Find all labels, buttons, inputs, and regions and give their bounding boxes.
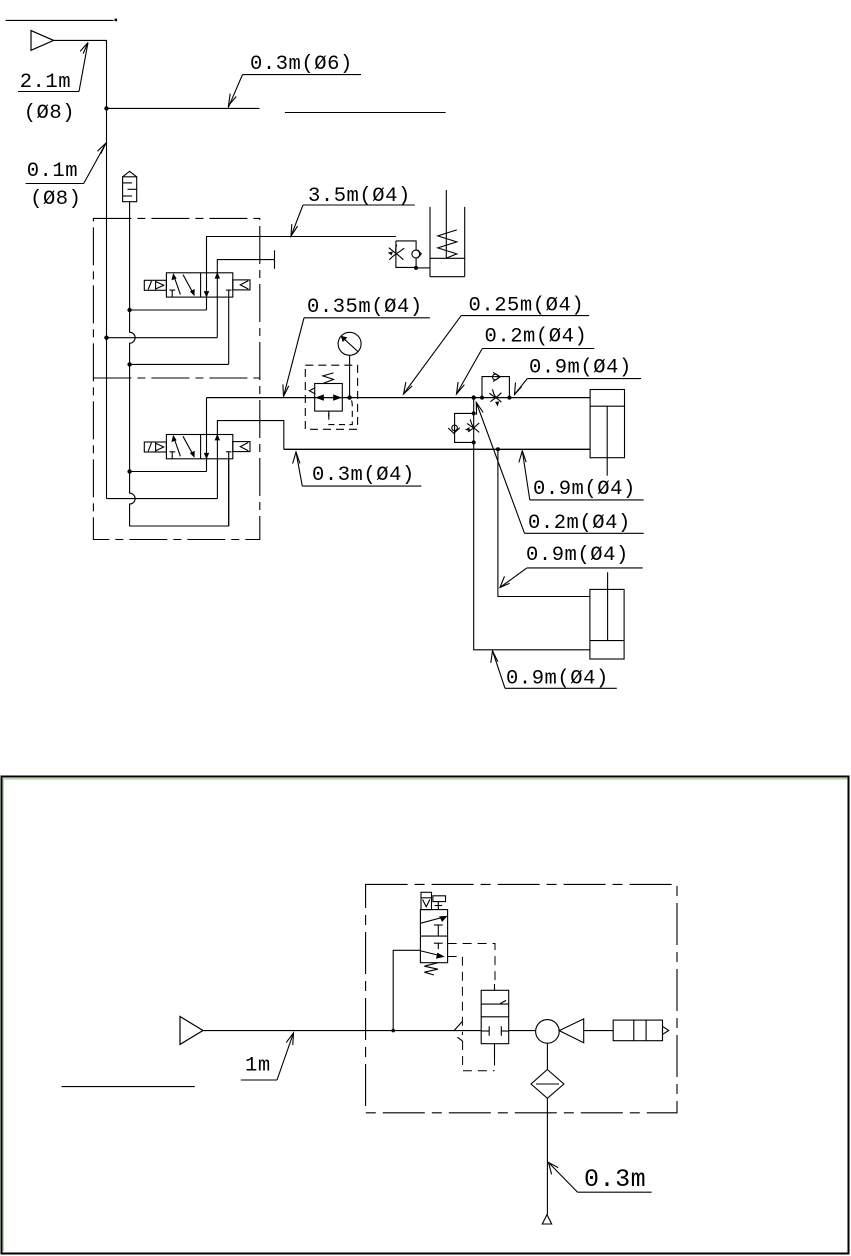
filter diamond	[531, 1070, 564, 1099]
svg-text:0.2m(Ø4): 0.2m(Ø4)	[485, 326, 588, 349]
top-left underline	[6, 19, 114, 21]
wire line A down to cylinder2 bottom	[474, 398, 590, 650]
wire V1 port passthrough down	[206, 297, 208, 310]
dashed pilot path P1	[448, 944, 495, 985]
outer border rectangle	[2, 777, 849, 1254]
manifold dash-dot box	[93, 218, 259, 539]
wire V1 exhaust y310	[130, 309, 207, 311]
wire V1 exhaust y364.4	[130, 363, 229, 365]
wire exhaust line with hops	[130, 202, 229, 526]
spring return V2 right	[233, 442, 250, 452]
wire V3 to circle	[509, 1030, 536, 1032]
svg-text:0.1m: 0.1m	[27, 160, 78, 183]
solenoid operator V2 left	[144, 442, 166, 452]
wire lower line y449.3	[284, 448, 590, 450]
shutoff circle CV	[536, 1020, 560, 1044]
svg-text:2.1m: 2.1m	[20, 71, 71, 94]
cylinder CYL2	[590, 572, 624, 659]
wire V2 port4 up	[206, 398, 208, 435]
vent triangle bottom	[542, 1215, 551, 1224]
svg-text:0.3m(Ø4): 0.3m(Ø4)	[312, 464, 415, 487]
svg-text:0.25m(Ø4): 0.25m(Ø4)	[469, 295, 585, 318]
wire 0.3m branch	[107, 107, 260, 109]
svg-text:0.3m(Ø6): 0.3m(Ø6)	[250, 53, 353, 76]
muffler silencer	[123, 171, 137, 201]
svg-text:0.2m(Ø4): 0.2m(Ø4)	[528, 512, 631, 535]
wire branch to pilot valve	[393, 950, 420, 1030]
svg-text:0.35m(Ø4): 0.35m(Ø4)	[307, 296, 423, 319]
wire V2 supply y498.6	[107, 498, 218, 500]
pilot solenoid valve PV	[420, 910, 447, 963]
svg-text:1m: 1m	[245, 1055, 271, 1078]
solenoid valve V1	[166, 273, 232, 297]
wire main bottom line	[203, 1030, 481, 1032]
solenoid operator PV top	[421, 892, 446, 909]
wire main line y397.6	[207, 397, 591, 399]
regulator R1 dashed enclosure	[305, 365, 357, 429]
speed controller SC2 on line A	[448, 413, 479, 442]
check triangle left-pointing	[559, 1019, 584, 1043]
spring return V1 right	[233, 280, 250, 290]
svg-text:0.9m(Ø4): 0.9m(Ø4)	[533, 478, 636, 501]
solenoid valve V2	[166, 435, 232, 459]
adjustment diagonal tick	[454, 1022, 463, 1032]
svg-text:(Ø8): (Ø8)	[24, 102, 75, 125]
speed controller SC0	[388, 241, 422, 268]
pilot operated valve V3	[481, 990, 509, 1043]
regulator vent dashed path	[329, 401, 353, 425]
wire triangle to silencer	[584, 1030, 614, 1032]
node supply branch dot	[104, 106, 108, 110]
wire V2 exhaust y471.5	[130, 471, 207, 473]
svg-text:0.9m(Ø4): 0.9m(Ø4)	[526, 544, 629, 567]
wire supply horizontal	[54, 40, 107, 498]
wire V1 port2 to plug	[217, 260, 274, 273]
green inner border lines	[3, 778, 848, 780]
dash-dot box bottom unit	[366, 884, 677, 1112]
dashed pilot path P2	[448, 957, 463, 1036]
wire V1 port4 to 3.5m line	[207, 237, 396, 273]
wire circle down to filter	[546, 1043, 548, 1069]
air supply source triangle	[31, 31, 54, 51]
wire V1 supply y337.7	[107, 337, 218, 339]
silencer cartridge	[613, 1020, 669, 1041]
wire V2 port2 step	[217, 421, 283, 450]
regulator R1	[309, 373, 342, 417]
wire V2 cell passthrough	[206, 435, 208, 459]
wire SC0 to cylinder	[417, 267, 430, 269]
supply triangle bottom	[180, 1017, 203, 1045]
wire line B to cylinder2 top	[498, 449, 590, 596]
svg-text:0.9m(Ø4): 0.9m(Ø4)	[506, 668, 609, 691]
spare underline bottom-left	[62, 1086, 195, 1088]
svg-text:0.3m: 0.3m	[584, 1165, 646, 1194]
speed controller SC1 on main line	[482, 372, 509, 406]
spring return cylinder C0	[430, 190, 465, 277]
solenoid operator V1 left	[144, 280, 166, 290]
plugged port bar	[274, 250, 276, 268]
spring PV bottom	[424, 963, 438, 975]
svg-text:0.9m(Ø4): 0.9m(Ø4)	[529, 357, 632, 380]
cylinder CYL1	[590, 390, 624, 476]
spare underline right	[285, 112, 446, 114]
pressure gauge G1	[338, 332, 361, 397]
wire V2 ports down	[206, 459, 208, 472]
svg-text:(Ø8): (Ø8)	[30, 188, 81, 211]
wire filter down	[546, 1098, 548, 1214]
